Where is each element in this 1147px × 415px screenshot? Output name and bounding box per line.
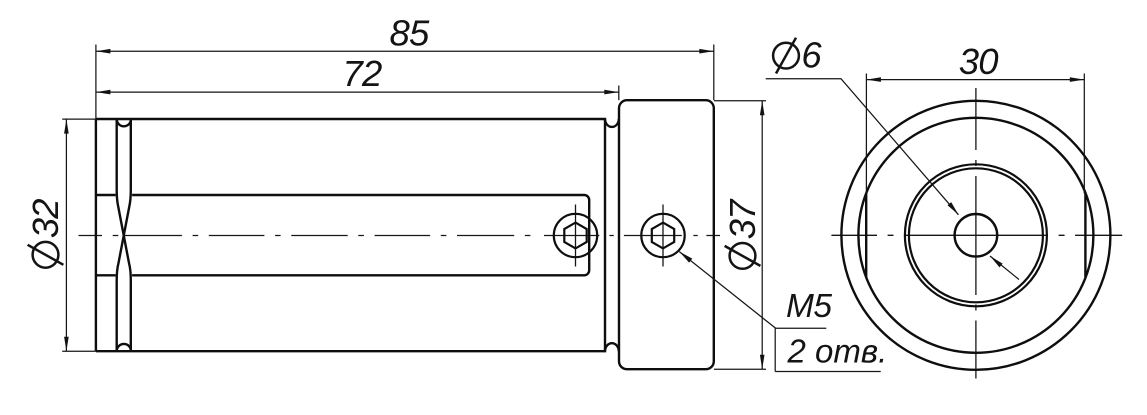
svg-text:37: 37 — [722, 198, 763, 239]
svg-text:72: 72 — [343, 53, 382, 94]
svg-text:M5: M5 — [786, 288, 832, 325]
svg-text:2 отв.: 2 отв. — [787, 333, 888, 370]
svg-text:32: 32 — [25, 199, 66, 238]
svg-text:6: 6 — [801, 35, 822, 76]
svg-text:85: 85 — [390, 13, 430, 54]
svg-text:30: 30 — [959, 41, 998, 82]
